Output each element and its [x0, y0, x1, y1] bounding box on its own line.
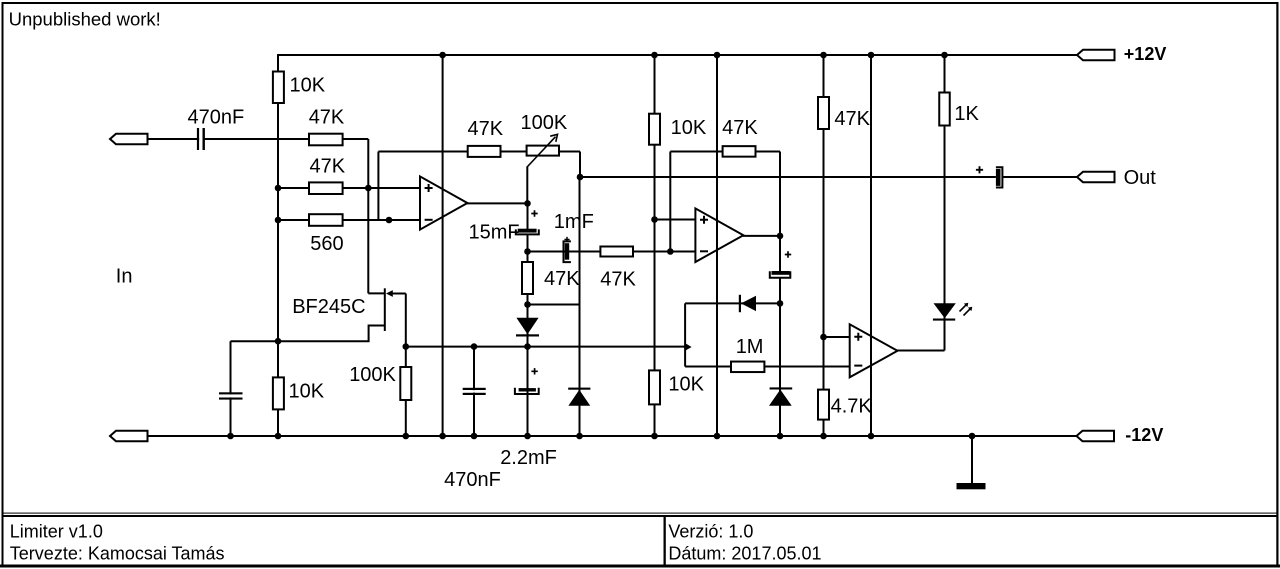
- port lower-left connector: [110, 431, 148, 442]
- wire 1K/LED branch x=944.5: [944, 55, 946, 351]
- node top rail / op1 rail: [439, 52, 446, 59]
- resistor 560 (inv row): [309, 214, 343, 226]
- svg-text:47K: 47K: [544, 268, 580, 290]
- node top rail / 47K divider: [820, 52, 827, 59]
- wire feedback drop x=780: [779, 152, 781, 236]
- wire op2 noninverting stub y=219.5: [655, 219, 696, 221]
- svg-text:47K: 47K: [722, 117, 758, 139]
- wire rail x=823.5 (47K/4.7K divider): [823, 55, 825, 436]
- transistor Q1 BF245C gate lead: [368, 292, 384, 294]
- wire noninverting row y=188: [278, 187, 420, 189]
- node control row / C5 chain: [524, 343, 531, 350]
- port -12V connector: [1077, 431, 1115, 442]
- wire +12V top rail: [278, 54, 1077, 56]
- resistor 10K (mid top): [649, 114, 660, 145]
- wire op1 output stub: [467, 202, 528, 204]
- wire mid rail x=654.5: [654, 55, 656, 436]
- node rectifier node: [777, 300, 784, 307]
- wire diode row y=303.4: [685, 302, 780, 304]
- port +12V connector: [1077, 50, 1115, 61]
- capacitor C1 (unlabeled, bottom left): [219, 394, 243, 397]
- wire feedback drop x=378.4: [377, 152, 379, 221]
- svg-text:47K: 47K: [468, 118, 504, 140]
- resistor 47K (feedback op2): [723, 146, 756, 157]
- arrow junction at hold node: [685, 343, 691, 350]
- svg-text:Out: Out: [1124, 167, 1157, 189]
- svg-text:+12V: +12V: [1124, 44, 1167, 64]
- node bottom rail / D3: [777, 433, 784, 440]
- wire op3 output stub y=350.5: [897, 350, 945, 352]
- wire node row y=304.5: [528, 304, 580, 306]
- svg-text:10K: 10K: [290, 74, 326, 96]
- capacitor electrolytic (op2 output): [770, 271, 791, 277]
- svg-text:Limiter v1.0: Limiter v1.0: [10, 521, 103, 541]
- resistor 47K (divider top): [818, 97, 829, 129]
- capacitor 470nF input coupling: [197, 128, 199, 150]
- node C5/D1 node: [524, 301, 531, 308]
- resistor 100K (gate bias): [400, 367, 411, 400]
- diode D3 (points up): [770, 387, 793, 389]
- node top rail / op3 rail: [868, 52, 875, 59]
- wire pot-to-out drop x=580: [579, 152, 581, 178]
- svg-text:47K: 47K: [834, 108, 870, 130]
- svg-text:1mF: 1mF: [554, 211, 594, 233]
- svg-text:100K: 100K: [521, 112, 568, 134]
- transistor Q1 arrow: [386, 290, 393, 297]
- node control row / C4: [471, 343, 478, 350]
- wire hold drop x=685.1: [684, 303, 686, 366]
- node bottom rail / op2 rail: [714, 433, 721, 440]
- ground symbol: [957, 483, 986, 489]
- svg-text:-12V: -12V: [1125, 425, 1163, 445]
- op-amp U2: [695, 208, 743, 262]
- node bottom rail / C5 chain: [524, 433, 531, 440]
- node bottom rail / 100K: [403, 433, 410, 440]
- svg-text:1M: 1M: [736, 336, 764, 358]
- resistor 47K (feedback op1): [468, 146, 501, 157]
- node top rail / mid rail: [651, 52, 658, 59]
- node op2 out node: [777, 233, 784, 240]
- svg-text:100K: 100K: [349, 364, 396, 386]
- wire C5 chain x=527.5: [527, 203, 529, 436]
- wire feedback drop x=670.3: [669, 152, 671, 252]
- svg-text:Dátum: 2017.05.01: Dátum: 2017.05.01: [668, 543, 821, 563]
- resistor 10K (mid bottom): [649, 370, 660, 404]
- transistor Q1 drain lead: [393, 293, 406, 295]
- op-amp U3: [850, 324, 898, 377]
- node bottom rail / op3 rail: [868, 433, 875, 440]
- svg-text:Verzió: 1.0: Verzió: 1.0: [668, 521, 753, 541]
- wire 1M row y=366.5: [685, 366, 850, 368]
- node left rail / noninv row: [275, 185, 282, 192]
- node bottom rail / mid rail: [651, 433, 658, 440]
- op-amp U1: [420, 176, 467, 229]
- svg-text:47K: 47K: [310, 156, 346, 178]
- node bottom rail / ground: [969, 433, 976, 440]
- resistor 47K (input row): [309, 134, 343, 146]
- resistor 10K (top left): [273, 72, 284, 104]
- svg-text:In: In: [116, 266, 133, 288]
- potentiometer 100K wiper arrow: [527, 137, 555, 167]
- transistor Q1 channel bar: [384, 288, 386, 331]
- svg-text:470nF: 470nF: [188, 106, 245, 128]
- wire input row y=139: [148, 138, 368, 140]
- node drain node: [403, 343, 410, 350]
- wire source leg of Q1: [278, 326, 385, 342]
- wire op3 supply rail x=871: [870, 55, 872, 436]
- wire op2 supply rail x=717: [716, 55, 718, 436]
- node bottom rail / left rail: [275, 433, 282, 440]
- svg-text:1K: 1K: [954, 103, 979, 125]
- wire 47K1-to-gate drop x=368.3: [367, 139, 369, 293]
- capacitor 15mF electrolytic: [516, 229, 539, 234]
- svg-text:10K: 10K: [289, 381, 325, 403]
- title block: [2, 513, 1277, 514]
- node bottom rail / op1 rail: [439, 433, 446, 440]
- svg-text:10K: 10K: [671, 117, 707, 139]
- wire left rail x=278: [277, 54, 279, 436]
- wire feedback row1 y=151.5: [378, 151, 580, 153]
- node detector node: [524, 248, 531, 255]
- wire C1 top link y=341.2: [231, 340, 279, 342]
- svg-text:Tervezte: Kamocsai Tamás: Tervezte: Kamocsai Tamás: [10, 543, 225, 563]
- wire op2 output stub: [743, 235, 780, 237]
- wire inverting row y=220: [278, 219, 420, 221]
- node bottom rail / C1: [227, 433, 234, 440]
- wire D4 branch x=579.5: [579, 177, 581, 436]
- wire pot wiper drop x=527.5: [526, 167, 528, 204]
- svg-text:47K: 47K: [309, 106, 345, 128]
- node out node: [577, 174, 584, 181]
- capacitor 1mF electrolytic (horizontal): [564, 241, 571, 262]
- svg-text:470nF: 470nF: [444, 469, 501, 491]
- resistor 1M: [731, 362, 764, 373]
- svg-text:560: 560: [310, 233, 343, 255]
- wire drain drop x=405.8: [405, 294, 407, 437]
- capacitor 2.2mF electrolytic: [515, 388, 539, 394]
- wire op1 supply rail x=442.6: [442, 55, 444, 436]
- resistor 47K (detector row): [600, 247, 633, 257]
- resistor 1K (LED): [939, 93, 950, 126]
- node op1 out node: [524, 200, 531, 207]
- wire rectifier chain x=780: [779, 236, 781, 436]
- node bottom rail / D4: [576, 433, 583, 440]
- svg-text:47K: 47K: [600, 269, 636, 291]
- LED D5: [934, 303, 956, 318]
- svg-text:4.7K: 4.7K: [831, 395, 873, 417]
- wire C4 branch x=474: [473, 347, 475, 436]
- wire control row y=346.6: [406, 346, 685, 348]
- frame border: [2, 2, 1279, 4]
- svg-text:BF245C: BF245C: [292, 296, 365, 318]
- resistor 47K (noninv row): [309, 182, 343, 194]
- wire out row y=177: [580, 176, 1077, 178]
- wire op3 noninverting stub y=337: [824, 336, 850, 338]
- capacitor 470nF (bottom): [463, 390, 486, 392]
- wire ground stub x=972: [971, 436, 973, 484]
- node left rail / inv row: [275, 217, 282, 224]
- node bottom rail / C4: [471, 433, 478, 440]
- wire feedback row2 y=151.5: [670, 151, 780, 153]
- diode D4 (points up): [568, 388, 590, 390]
- node top rail / 1K branch: [941, 52, 948, 59]
- wire detector row y=251.5: [528, 251, 696, 253]
- node op3 noninv node: [820, 334, 827, 341]
- node mid rail / op2 noninv: [651, 216, 658, 223]
- svg-text:10K: 10K: [668, 374, 704, 396]
- capacitor electrolytic (output coupling): [996, 167, 1003, 187]
- LED light arrows: [960, 304, 971, 315]
- potentiometer 100K body: [527, 146, 559, 156]
- wire C1 branch x=230.5: [230, 341, 232, 436]
- resistor 10K (bottom left): [273, 377, 284, 409]
- node bottom rail / 4.7K: [820, 433, 827, 440]
- node op2 inv node: [667, 248, 674, 255]
- port Out connector: [1077, 172, 1115, 183]
- node top rail / op2 rail: [714, 52, 721, 59]
- port In connector: [110, 134, 148, 145]
- node left rail / source leg: [275, 338, 282, 345]
- svg-text:15mF: 15mF: [469, 221, 520, 243]
- wire bottom -12V rail y=436: [148, 435, 1078, 437]
- resistor 47K (vertical, detector): [522, 262, 533, 294]
- node noninv row / gate drop: [365, 185, 372, 192]
- svg-text:Unpublished work!: Unpublished work!: [9, 8, 161, 29]
- resistor 4.7K: [818, 390, 829, 420]
- node inv row junction: [386, 217, 393, 224]
- diode D2 (horizontal, points left): [739, 295, 741, 312]
- diode D1 (at detector node): [516, 318, 538, 335]
- svg-text:2.2mF: 2.2mF: [500, 447, 557, 469]
